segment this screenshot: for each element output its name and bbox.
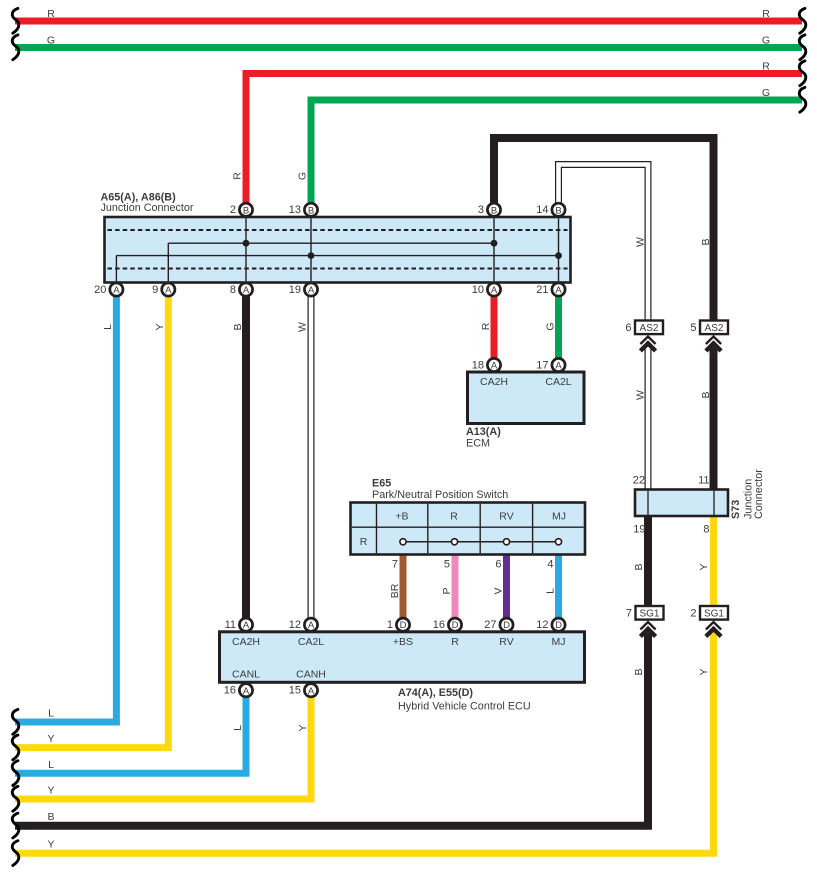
svg-text:A: A: [308, 285, 315, 296]
svg-text:MJ: MJ: [552, 636, 566, 648]
svg-text:R: R: [231, 172, 243, 180]
svg-text:CA2L: CA2L: [298, 636, 324, 648]
svg-text:+BS: +BS: [393, 636, 413, 648]
svg-text:8: 8: [703, 523, 709, 535]
svg-text:A74(A), E55(D): A74(A), E55(D): [398, 687, 473, 699]
svg-text:D: D: [503, 620, 510, 631]
svg-text:L: L: [48, 759, 54, 771]
svg-text:A13(A): A13(A): [466, 426, 501, 438]
svg-text:2: 2: [690, 608, 696, 620]
svg-text:A: A: [243, 686, 250, 697]
svg-text:2: 2: [230, 204, 236, 216]
svg-text:18: 18: [472, 359, 484, 371]
svg-text:27: 27: [484, 619, 496, 631]
svg-text:G: G: [47, 35, 55, 47]
svg-text:CANH: CANH: [296, 669, 326, 681]
svg-text:17: 17: [536, 359, 548, 371]
svg-text:13: 13: [289, 204, 301, 216]
svg-text:Y: Y: [698, 668, 710, 675]
svg-text:16: 16: [433, 619, 445, 631]
svg-text:11: 11: [698, 475, 709, 487]
svg-text:CA2H: CA2H: [232, 636, 260, 648]
svg-text:14: 14: [536, 204, 548, 216]
svg-text:B: B: [47, 811, 54, 823]
svg-text:L: L: [232, 725, 244, 731]
svg-text:R: R: [360, 536, 368, 548]
svg-text:CA2H: CA2H: [480, 376, 508, 388]
svg-text:B: B: [700, 391, 712, 398]
svg-text:A: A: [308, 686, 315, 697]
svg-text:S73: S73: [730, 500, 742, 519]
svg-text:A: A: [243, 285, 250, 296]
svg-text:D: D: [452, 620, 459, 631]
svg-text:B: B: [555, 205, 561, 216]
svg-text:B: B: [491, 205, 497, 216]
svg-text:L: L: [102, 324, 114, 330]
svg-text:Y: Y: [47, 839, 54, 851]
svg-text:RV: RV: [499, 511, 513, 523]
svg-text:AS2: AS2: [705, 323, 724, 334]
svg-text:V: V: [492, 587, 504, 594]
svg-text:A: A: [555, 361, 562, 372]
svg-text:16: 16: [224, 685, 236, 697]
svg-text:5: 5: [690, 322, 696, 334]
svg-text:6: 6: [625, 322, 631, 334]
svg-text:Y: Y: [47, 785, 54, 797]
svg-text:R: R: [451, 636, 459, 648]
svg-text:B: B: [243, 205, 249, 216]
svg-text:B: B: [308, 205, 314, 216]
svg-text:R: R: [762, 8, 770, 20]
svg-text:R: R: [47, 8, 55, 20]
svg-text:12: 12: [536, 619, 548, 631]
svg-text:CA2L: CA2L: [545, 376, 571, 388]
svg-text:Y: Y: [47, 733, 54, 745]
svg-text:G: G: [762, 87, 770, 99]
svg-text:Y: Y: [154, 323, 166, 330]
svg-text:D: D: [555, 620, 562, 631]
svg-text:Connector: Connector: [753, 469, 765, 519]
svg-text:Park/Neutral Position Switch: Park/Neutral Position Switch: [372, 489, 508, 501]
svg-text:A: A: [165, 285, 172, 296]
svg-text:L: L: [48, 708, 54, 720]
svg-text:G: G: [762, 35, 770, 47]
svg-text:19: 19: [633, 523, 645, 535]
svg-text:Hybrid Vehicle Control ECU: Hybrid Vehicle Control ECU: [398, 701, 531, 713]
svg-text:B: B: [633, 668, 645, 675]
svg-text:20: 20: [94, 284, 106, 296]
svg-text:B: B: [232, 323, 244, 330]
svg-text:MJ: MJ: [552, 511, 566, 523]
svg-text:A: A: [555, 285, 562, 296]
svg-text:Y: Y: [297, 724, 309, 731]
svg-text:7: 7: [626, 608, 632, 620]
svg-text:A: A: [491, 361, 498, 372]
svg-text:9: 9: [152, 284, 158, 296]
svg-text:R: R: [762, 61, 770, 73]
svg-text:SG1: SG1: [704, 608, 724, 619]
svg-text:A: A: [243, 620, 250, 631]
svg-text:A: A: [491, 285, 498, 296]
svg-text:E65: E65: [372, 478, 391, 490]
svg-text:B: B: [633, 563, 645, 570]
svg-text:22: 22: [633, 475, 645, 487]
svg-text:Junction Connector: Junction Connector: [101, 202, 194, 214]
svg-text:B: B: [700, 238, 712, 245]
svg-text:1: 1: [387, 619, 393, 631]
svg-text:W: W: [634, 237, 646, 247]
svg-text:19: 19: [289, 284, 301, 296]
svg-text:3: 3: [478, 204, 484, 216]
svg-text:7: 7: [392, 559, 398, 571]
svg-text:SG1: SG1: [639, 608, 659, 619]
svg-text:R: R: [480, 322, 492, 330]
svg-text:5: 5: [444, 559, 450, 571]
svg-text:4: 4: [547, 559, 553, 571]
svg-text:6: 6: [495, 559, 501, 571]
svg-text:R: R: [450, 511, 458, 523]
svg-text:W: W: [634, 390, 646, 400]
svg-text:G: G: [544, 322, 556, 330]
svg-text:ECM: ECM: [466, 438, 490, 450]
svg-text:BR: BR: [389, 583, 401, 598]
svg-text:15: 15: [289, 685, 301, 697]
svg-text:L: L: [544, 588, 556, 594]
svg-text:CANL: CANL: [232, 669, 260, 681]
svg-text:W: W: [296, 322, 308, 332]
svg-text:21: 21: [536, 284, 548, 296]
svg-text:+B: +B: [395, 511, 408, 523]
svg-text:10: 10: [472, 284, 484, 296]
svg-text:12: 12: [289, 619, 301, 631]
svg-text:G: G: [296, 172, 308, 180]
svg-text:8: 8: [230, 284, 236, 296]
svg-text:D: D: [400, 620, 407, 631]
svg-text:AS2: AS2: [640, 323, 659, 334]
svg-text:A: A: [113, 285, 120, 296]
svg-text:Y: Y: [698, 563, 710, 570]
svg-text:RV: RV: [499, 636, 513, 648]
svg-text:A: A: [308, 620, 315, 631]
svg-text:P: P: [441, 587, 453, 594]
svg-text:11: 11: [225, 619, 236, 631]
